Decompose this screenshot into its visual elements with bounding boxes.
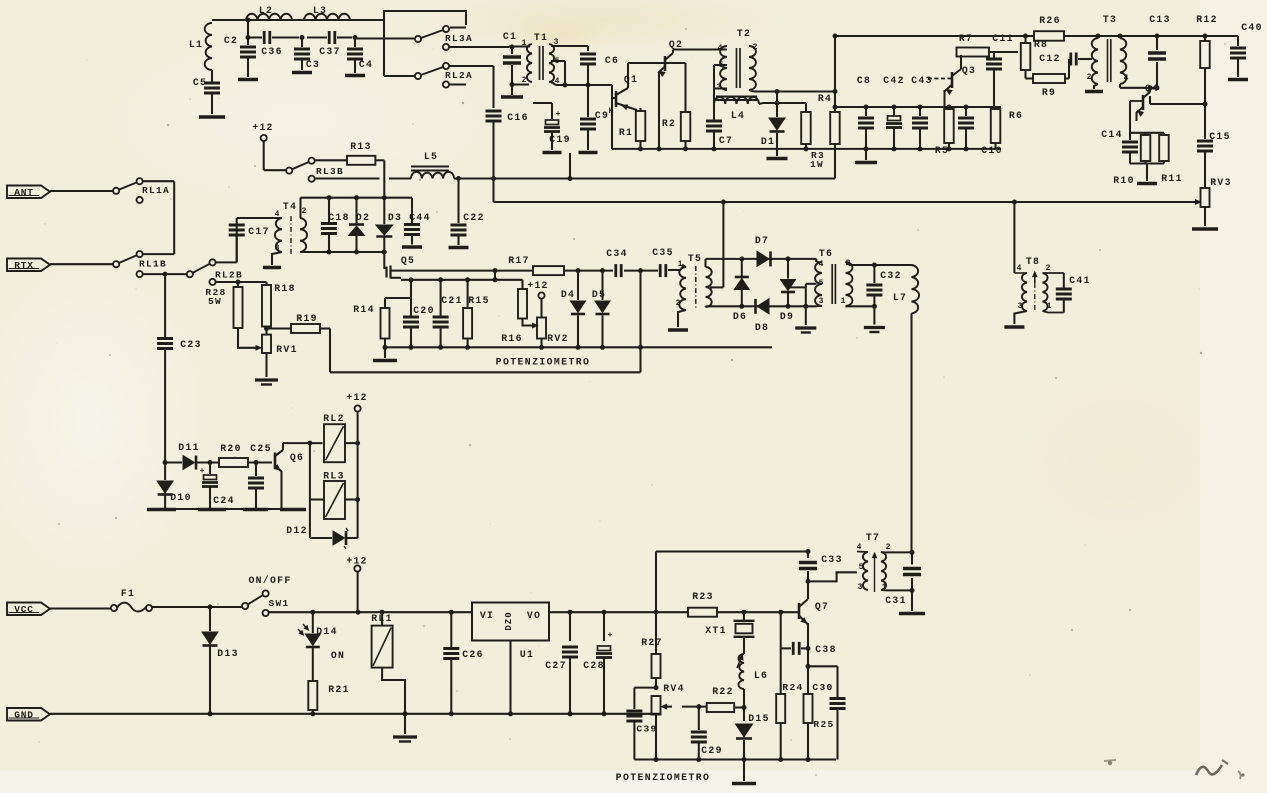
- svg-text:Q5: Q5: [401, 255, 415, 266]
- svg-text:T1: T1: [534, 32, 548, 43]
- svg-text:ON/OFF: ON/OFF: [248, 575, 291, 586]
- svg-text:C5: C5: [193, 77, 207, 88]
- svg-text:RV4: RV4: [663, 683, 685, 694]
- svg-text:T7: T7: [866, 532, 880, 543]
- svg-text:Q1: Q1: [624, 74, 638, 85]
- svg-text:R4: R4: [818, 93, 832, 104]
- svg-text:2: 2: [1087, 73, 1092, 82]
- svg-text:R5: R5: [935, 145, 949, 156]
- svg-text:R2: R2: [662, 118, 676, 129]
- svg-text:R1: R1: [619, 127, 633, 138]
- svg-text:1: 1: [841, 297, 846, 306]
- svg-text:C19: C19: [549, 134, 571, 145]
- svg-text:C27: C27: [545, 660, 567, 671]
- svg-text:1W: 1W: [810, 159, 824, 170]
- svg-text:C32: C32: [880, 270, 902, 281]
- svg-text:T2: T2: [737, 28, 751, 39]
- svg-text:C23: C23: [180, 339, 202, 350]
- svg-text:4: 4: [275, 210, 280, 219]
- svg-text:R6: R6: [1009, 110, 1023, 121]
- svg-text:C41: C41: [1069, 275, 1091, 286]
- svg-text:D10: D10: [170, 492, 192, 503]
- svg-text:D15: D15: [748, 713, 770, 724]
- svg-text:C26: C26: [462, 649, 484, 660]
- svg-text:R20: R20: [220, 443, 242, 454]
- svg-text:+12: +12: [346, 392, 367, 403]
- svg-text:RV2: RV2: [547, 333, 569, 344]
- svg-text:RTX: RTX: [14, 260, 34, 271]
- svg-text:RL2B: RL2B: [215, 270, 243, 281]
- svg-text:T4: T4: [283, 201, 297, 212]
- svg-text:D13: D13: [217, 648, 239, 659]
- svg-text:C7: C7: [719, 135, 733, 146]
- svg-text:D2: D2: [356, 212, 370, 223]
- svg-text:C30: C30: [812, 682, 833, 693]
- svg-text:R27: R27: [641, 637, 663, 648]
- svg-text:R25: R25: [813, 719, 834, 730]
- svg-text:L4: L4: [731, 110, 745, 121]
- svg-text:R22: R22: [712, 686, 734, 697]
- svg-text:C16: C16: [507, 112, 529, 123]
- svg-text:VI: VI: [480, 610, 494, 621]
- svg-text:C38: C38: [815, 644, 837, 655]
- svg-text:C43: C43: [911, 75, 933, 86]
- svg-text:C9: C9: [595, 110, 609, 121]
- svg-text:DZ0: DZ0: [504, 611, 514, 630]
- svg-text:L1: L1: [189, 39, 203, 50]
- svg-text:C14: C14: [1101, 129, 1123, 140]
- svg-text:C44: C44: [409, 212, 431, 223]
- svg-text:C15: C15: [1209, 131, 1231, 142]
- svg-text:R21: R21: [328, 684, 350, 695]
- svg-text:2: 2: [886, 543, 891, 552]
- svg-text:C39: C39: [636, 724, 657, 735]
- svg-text:2: 2: [302, 207, 307, 216]
- svg-text:C12: C12: [1039, 53, 1061, 64]
- svg-text:R16: R16: [501, 333, 523, 344]
- svg-text:D11: D11: [178, 442, 200, 453]
- svg-text:D6: D6: [733, 311, 747, 322]
- svg-text:R18: R18: [274, 283, 296, 294]
- svg-text:D9: D9: [780, 311, 794, 322]
- svg-text:ANT: ANT: [14, 187, 34, 198]
- svg-text:C6: C6: [605, 55, 619, 66]
- svg-text:RL3A: RL3A: [445, 33, 473, 44]
- svg-text:C34: C34: [606, 248, 628, 259]
- svg-text:GND: GND: [14, 710, 34, 721]
- svg-text:VCC: VCC: [14, 604, 34, 615]
- svg-text:C4: C4: [359, 59, 373, 70]
- svg-text:R23: R23: [692, 591, 714, 602]
- svg-text:R11: R11: [1161, 173, 1183, 184]
- svg-text:T8: T8: [1026, 256, 1040, 267]
- svg-text:C31: C31: [885, 595, 907, 606]
- svg-text:C3: C3: [306, 59, 320, 70]
- svg-text:ON: ON: [331, 650, 345, 661]
- svg-text:Q7: Q7: [815, 601, 829, 612]
- svg-text:+: +: [200, 467, 205, 476]
- svg-text:RL1A: RL1A: [142, 185, 170, 196]
- svg-text:RV1: RV1: [276, 344, 298, 355]
- svg-text:C21: C21: [441, 295, 463, 306]
- svg-text:T3: T3: [1103, 14, 1117, 25]
- svg-text:3: 3: [858, 583, 863, 592]
- svg-text:R14: R14: [353, 304, 375, 315]
- svg-text:D8: D8: [755, 322, 769, 333]
- svg-text:POTENZIOMETRO: POTENZIOMETRO: [496, 357, 591, 368]
- svg-text:C35: C35: [652, 247, 674, 258]
- svg-text:R19: R19: [296, 313, 318, 324]
- svg-text:SW1: SW1: [268, 598, 289, 609]
- svg-text:C37: C37: [319, 46, 341, 57]
- svg-text:POTENZIOMETRO: POTENZIOMETRO: [616, 772, 711, 783]
- svg-text:+: +: [608, 631, 613, 640]
- svg-text:L3: L3: [313, 5, 327, 16]
- svg-text:T5: T5: [688, 253, 702, 264]
- svg-text:C10: C10: [981, 145, 1003, 156]
- svg-text:D7: D7: [755, 235, 769, 246]
- svg-text:C28: C28: [583, 660, 605, 671]
- svg-text:+: +: [556, 110, 561, 119]
- svg-text:L5: L5: [424, 151, 438, 162]
- svg-text:C24: C24: [213, 495, 235, 506]
- svg-text:C11: C11: [992, 33, 1014, 44]
- svg-text:D5: D5: [592, 289, 606, 300]
- svg-text:RL2: RL2: [323, 413, 345, 424]
- svg-text:5W: 5W: [208, 296, 222, 307]
- svg-text:R9: R9: [1042, 87, 1056, 98]
- svg-text:C17: C17: [248, 226, 270, 237]
- svg-text:Q6: Q6: [290, 452, 304, 463]
- svg-text:RL1B: RL1B: [139, 259, 167, 270]
- svg-text:L2: L2: [259, 5, 273, 16]
- svg-text:C13: C13: [1149, 14, 1171, 25]
- svg-text:C8: C8: [857, 75, 871, 86]
- svg-text:R24: R24: [782, 682, 803, 693]
- svg-text:K: K: [609, 107, 614, 116]
- svg-text:RL3: RL3: [323, 471, 345, 482]
- svg-text:C22: C22: [463, 212, 485, 223]
- svg-text:C18: C18: [328, 212, 350, 223]
- svg-text:C25: C25: [250, 443, 272, 454]
- svg-text:C36: C36: [261, 46, 283, 57]
- svg-text:D3: D3: [388, 212, 402, 223]
- svg-text:Q2: Q2: [669, 39, 683, 50]
- svg-text:Q3: Q3: [962, 65, 976, 76]
- svg-text:L6: L6: [754, 670, 768, 681]
- svg-text:C33: C33: [821, 554, 843, 565]
- svg-text:C2: C2: [224, 35, 238, 46]
- svg-text:C40: C40: [1241, 22, 1263, 33]
- svg-text:4: 4: [1124, 74, 1129, 83]
- svg-text:4: 4: [1017, 264, 1022, 273]
- svg-text:XT1: XT1: [705, 625, 727, 636]
- svg-text:R12: R12: [1196, 14, 1218, 25]
- svg-text:+12: +12: [252, 122, 273, 133]
- svg-text:T6: T6: [819, 248, 833, 259]
- svg-text:RV3: RV3: [1210, 177, 1232, 188]
- svg-text:C20: C20: [413, 305, 435, 316]
- svg-text:D12: D12: [286, 525, 308, 536]
- svg-text:RL3B: RL3B: [316, 166, 344, 177]
- svg-text:VO: VO: [527, 610, 541, 621]
- svg-text:R17: R17: [508, 255, 530, 266]
- svg-text:2: 2: [1046, 264, 1051, 273]
- svg-text:C42: C42: [883, 75, 905, 86]
- svg-text:L7: L7: [893, 292, 907, 303]
- svg-text:+12: +12: [527, 280, 548, 291]
- svg-text:1: 1: [522, 39, 527, 48]
- svg-text:RL2A: RL2A: [445, 70, 473, 81]
- svg-text:R15: R15: [468, 295, 490, 306]
- svg-text:D4: D4: [561, 289, 575, 300]
- svg-text:2: 2: [522, 76, 527, 85]
- svg-text:C1: C1: [503, 31, 517, 42]
- svg-text:D14: D14: [316, 626, 338, 637]
- svg-text:D1: D1: [761, 136, 775, 147]
- svg-text:R10: R10: [1113, 175, 1135, 186]
- svg-text:RL1: RL1: [371, 613, 393, 624]
- svg-text:R13: R13: [350, 141, 372, 152]
- svg-text:R8: R8: [1034, 39, 1048, 50]
- svg-text:R26: R26: [1039, 15, 1061, 26]
- svg-text:R7: R7: [959, 33, 973, 44]
- svg-text:C29: C29: [701, 745, 723, 756]
- svg-text:F1: F1: [121, 588, 135, 599]
- svg-text:U1: U1: [520, 649, 534, 660]
